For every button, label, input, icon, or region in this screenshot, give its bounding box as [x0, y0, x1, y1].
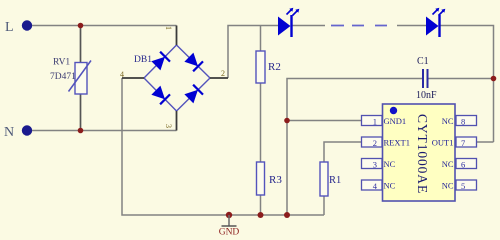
wire RV1 top lead — [80, 26, 82, 63]
resistor R1 — [320, 162, 341, 196]
junction dot C1 right — [491, 76, 497, 82]
diode D-BR — [185, 91, 197, 103]
ground symbol GND — [219, 215, 240, 238]
junction dot pin1 net — [284, 118, 290, 124]
svg-text:8: 8 — [461, 117, 465, 127]
svg-text:7: 7 — [461, 138, 465, 148]
bridge pin 4 stub — [122, 77, 144, 79]
svg-text:RV1: RV1 — [53, 58, 70, 68]
svg-text:R3: R3 — [269, 174, 282, 186]
wire R1 to ground rail — [323, 196, 325, 215]
pin box 3 — [362, 159, 383, 169]
wire LED2 cathode to right riser — [440, 26, 494, 143]
wire N rail — [32, 130, 177, 132]
bridge pin 1 stem — [176, 26, 178, 46]
wire R2 branch — [260, 26, 262, 52]
svg-text:6: 6 — [461, 160, 465, 170]
svg-text:1: 1 — [373, 117, 377, 127]
pin box 5 — [456, 180, 477, 190]
svg-text:CYT1000AE: CYT1000AE — [415, 114, 430, 194]
diode D-TR — [185, 54, 197, 66]
svg-text:OUT1: OUT1 — [432, 138, 454, 148]
pin1 indicator dot — [390, 107, 397, 114]
wire bridge plus riser — [228, 26, 278, 79]
svg-text:2: 2 — [373, 138, 377, 148]
pin box 6 — [456, 159, 477, 169]
resistor R2 — [256, 51, 281, 83]
svg-text:R2: R2 — [268, 61, 281, 73]
svg-text:DB1: DB1 — [134, 55, 152, 65]
svg-text:10nF: 10nF — [416, 90, 437, 101]
wire IC pin7 — [477, 141, 494, 143]
pin box 4 — [362, 180, 383, 190]
svg-text:4: 4 — [120, 70, 124, 79]
svg-text:NC: NC — [442, 181, 454, 191]
diode D-TL — [152, 58, 164, 70]
svg-text:NC: NC — [384, 159, 396, 169]
resistor R3 — [257, 162, 283, 195]
wire L rail — [32, 25, 177, 27]
svg-text:1: 1 — [164, 26, 173, 30]
wire R3 to ground rail — [260, 195, 262, 215]
wire IC pin2 to R1 — [324, 142, 362, 162]
svg-text:3: 3 — [164, 124, 173, 128]
svg-text:NC: NC — [442, 159, 454, 169]
wire R2 to R3 — [260, 83, 262, 162]
wire IC pin1 — [287, 120, 362, 122]
svg-text:7D471: 7D471 — [50, 72, 76, 82]
svg-text:REXT1: REXT1 — [384, 138, 410, 148]
IC U1 CYT1000AE — [362, 104, 477, 201]
svg-text:C1: C1 — [417, 56, 429, 67]
wire C1 left net — [287, 79, 422, 216]
junction dot RV1 bottom — [78, 128, 84, 134]
junction dot R3 bottom — [258, 212, 264, 218]
pin box 8 — [456, 116, 477, 126]
LED D1 — [278, 8, 299, 37]
wire LED2 anode segment — [397, 25, 426, 27]
pin box 1 — [362, 116, 383, 126]
wire C1 right — [429, 78, 494, 80]
pin box 7 — [456, 137, 477, 147]
terminal N — [4, 125, 32, 140]
svg-text:NC: NC — [384, 181, 396, 191]
capacitor C1 — [416, 56, 437, 101]
terminal L — [5, 20, 32, 35]
diode D-BL — [152, 87, 164, 99]
LED D2 — [426, 8, 445, 37]
junction dot RV1 top — [78, 23, 84, 29]
svg-text:GND1: GND1 — [384, 116, 407, 126]
junction dot GND — [226, 212, 232, 218]
wire RV1 bottom lead — [80, 94, 82, 131]
svg-text:N: N — [4, 125, 14, 140]
pin box 2 — [362, 137, 383, 147]
wire LED1 cathode segment — [292, 25, 325, 27]
wire bridge minus to ground rail — [122, 78, 324, 215]
svg-text:L: L — [5, 20, 14, 35]
svg-text:GND: GND — [219, 228, 240, 238]
svg-text:5: 5 — [461, 181, 465, 191]
svg-text:2: 2 — [221, 69, 225, 78]
varistor RV1 — [50, 58, 91, 95]
svg-text:NC: NC — [442, 116, 454, 126]
svg-text:R1: R1 — [329, 175, 341, 186]
junction dot C1 net bottom — [284, 212, 290, 218]
bridge pin 3 stem — [176, 111, 178, 131]
wire dashed LED string — [331, 25, 387, 27]
svg-text:3: 3 — [373, 160, 377, 170]
bridge pin 2 stub — [210, 77, 228, 79]
bridge rectifier DB1 — [120, 26, 228, 131]
